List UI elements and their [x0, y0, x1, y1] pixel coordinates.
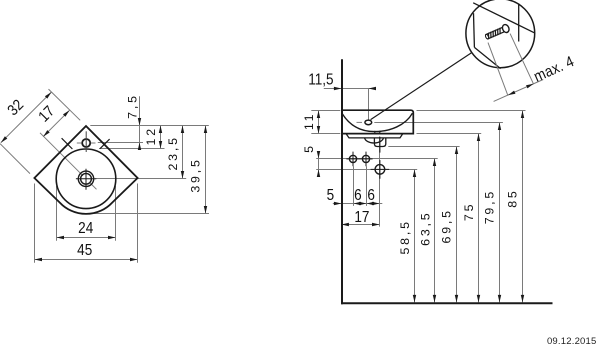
svg-text:11,5: 11,5 [308, 72, 333, 89]
svg-text:09.12.2015: 09.12.2015 [547, 336, 597, 347]
svg-text:79,5: 79,5 [483, 189, 497, 224]
svg-text:63,5: 63,5 [419, 211, 433, 246]
svg-text:12: 12 [144, 126, 158, 145]
svg-text:17: 17 [354, 209, 369, 226]
svg-text:58,5: 58,5 [398, 219, 412, 254]
svg-text:24: 24 [78, 220, 93, 237]
svg-text:6: 6 [354, 187, 362, 204]
svg-text:85: 85 [506, 188, 520, 207]
svg-text:5: 5 [327, 187, 335, 204]
svg-text:11: 11 [302, 112, 316, 130]
svg-text:6: 6 [367, 187, 375, 204]
svg-text:69,5: 69,5 [439, 208, 453, 243]
svg-text:7,5: 7,5 [125, 93, 139, 119]
svg-text:23,5: 23,5 [166, 135, 180, 170]
svg-text:75: 75 [462, 202, 476, 221]
svg-text:39,5: 39,5 [189, 157, 203, 192]
svg-text:45: 45 [77, 242, 92, 259]
svg-text:5: 5 [302, 143, 316, 153]
